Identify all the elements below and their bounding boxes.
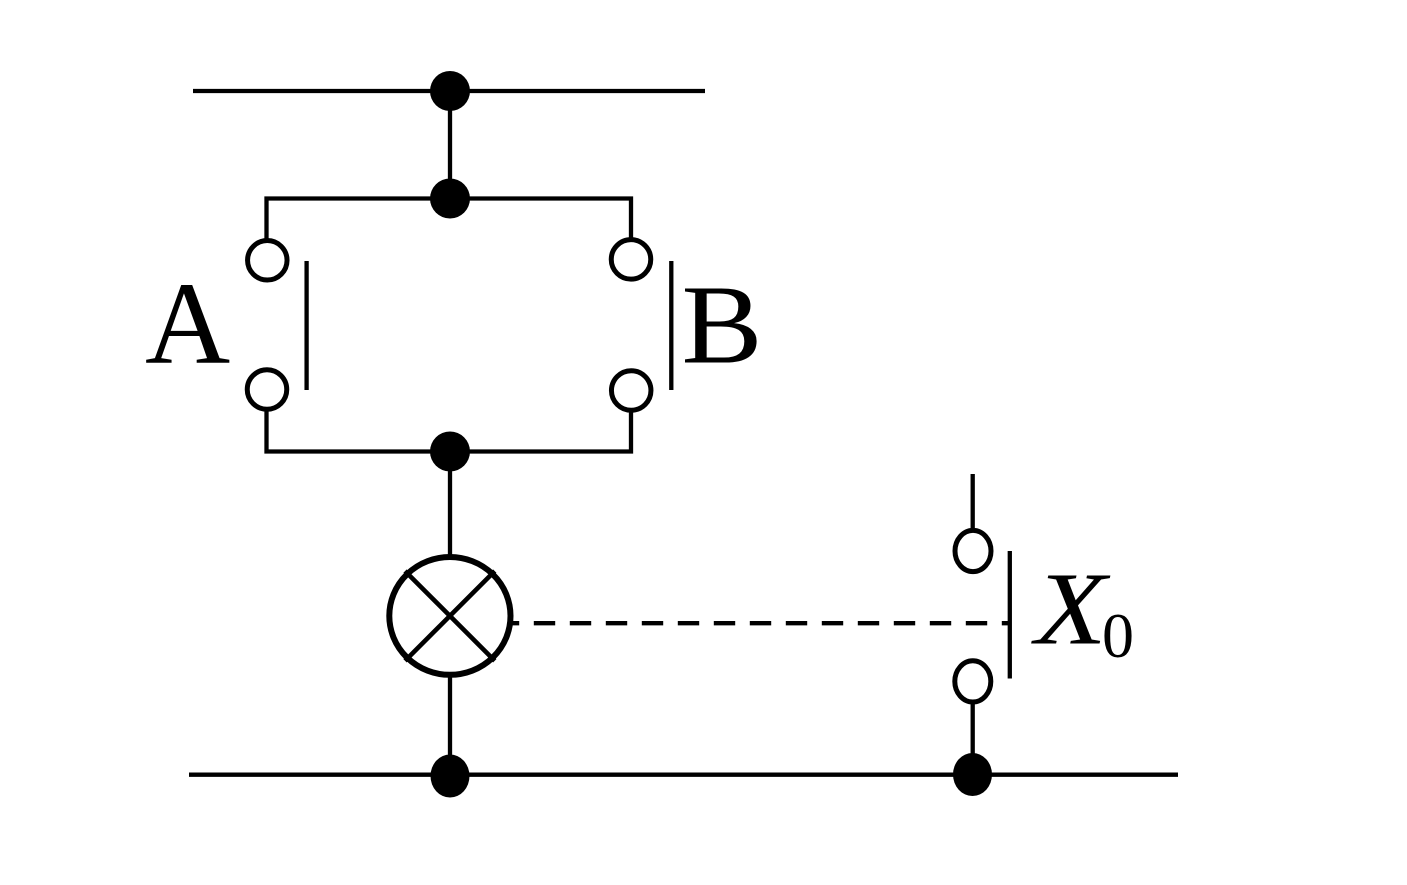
svg-text:A: A bbox=[145, 258, 230, 389]
svg-text:B: B bbox=[682, 264, 763, 388]
svg-text:X: X bbox=[1031, 551, 1112, 666]
svg-text:0: 0 bbox=[1102, 600, 1134, 671]
